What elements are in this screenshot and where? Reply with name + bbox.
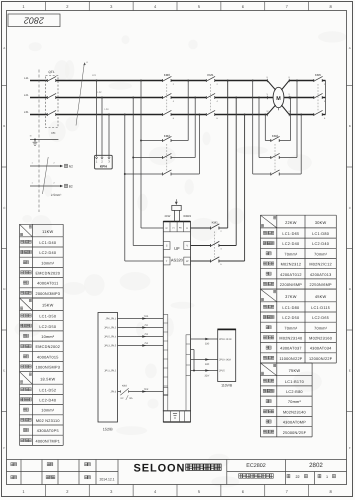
svg-text:LC1-D65: LC1-D65 bbox=[282, 232, 299, 236]
svg-text:22KW: 22KW bbox=[285, 220, 297, 225]
svg-text:LC2-B80: LC2-B80 bbox=[286, 390, 303, 394]
svg-text:L21: L21 bbox=[24, 93, 29, 97]
svg-text:4300AT0P5: 4300AT0P5 bbox=[37, 429, 59, 433]
svg-text:3DY: 3DY bbox=[204, 374, 209, 377]
svg-text:1: 1 bbox=[326, 475, 328, 479]
svg-text:LC2-D40: LC2-D40 bbox=[39, 251, 56, 255]
svg-text:LC1-B170: LC1-B170 bbox=[285, 380, 304, 384]
svg-text:4200AT012: 4200AT012 bbox=[280, 273, 302, 277]
svg-text:4200AT013: 4200AT013 bbox=[310, 273, 332, 277]
svg-text:M02N23140: M02N23140 bbox=[279, 337, 302, 341]
svg-text:A: A bbox=[349, 46, 351, 50]
svg-text:F: F bbox=[3, 446, 5, 450]
svg-text:EMCDN2002: EMCDN2002 bbox=[35, 345, 60, 349]
svg-text:JPL6: JPL6 bbox=[110, 391, 116, 394]
svg-text:2000N/3MP3: 2000N/3MP3 bbox=[35, 292, 60, 296]
svg-text:2.5mm²: 2.5mm² bbox=[51, 193, 62, 197]
svg-text:70mm²: 70mm² bbox=[314, 252, 328, 256]
svg-text:2014.12.1: 2014.12.1 bbox=[99, 477, 114, 481]
svg-text:(+): (+) bbox=[172, 227, 175, 230]
svg-text:L01: L01 bbox=[92, 74, 97, 77]
svg-text:18.5KW: 18.5KW bbox=[40, 376, 55, 381]
svg-text:JP10.JPL2: JP10.JPL2 bbox=[104, 327, 117, 330]
svg-text:75KW: 75KW bbox=[289, 368, 301, 373]
svg-text:WDR2: WDR2 bbox=[183, 215, 191, 218]
svg-text:E: E bbox=[3, 369, 5, 373]
svg-text:45KW: 45KW bbox=[315, 294, 327, 299]
svg-text:LC1-D115: LC1-D115 bbox=[311, 306, 330, 310]
svg-text:L11: L11 bbox=[24, 76, 29, 80]
svg-text:AS320: AS320 bbox=[171, 258, 184, 263]
svg-text:JP15.JPL4: JP15.JPL4 bbox=[104, 336, 117, 339]
svg-text:N2: N2 bbox=[69, 164, 73, 168]
svg-text:M02N2/C12: M02N2/C12 bbox=[309, 263, 332, 267]
svg-text:M02 N23110: M02 N23110 bbox=[36, 419, 60, 423]
svg-text:1000N/5MP3: 1000N/5MP3 bbox=[35, 366, 60, 370]
svg-text:12000N/22F: 12000N/22F bbox=[309, 357, 333, 361]
svg-text:LC1-D40: LC1-D40 bbox=[39, 241, 56, 245]
svg-text:7H1: 7H1 bbox=[144, 315, 149, 318]
svg-text:PE: PE bbox=[51, 131, 55, 135]
svg-text:15KW: 15KW bbox=[42, 303, 54, 308]
svg-text:152/B: 152/B bbox=[103, 427, 113, 431]
svg-text:10mm²: 10mm² bbox=[41, 409, 55, 413]
svg-text:22: 22 bbox=[295, 475, 299, 479]
svg-text:LC2-D40: LC2-D40 bbox=[39, 399, 56, 403]
svg-text:LC1-D80: LC1-D80 bbox=[282, 306, 299, 310]
svg-text:KM1: KM1 bbox=[207, 73, 214, 77]
svg-text:EMCDN2020: EMCDN2020 bbox=[35, 272, 60, 276]
svg-text:JP13.JPL5: JP13.JPL5 bbox=[104, 345, 117, 348]
svg-text:BA: BA bbox=[129, 397, 133, 400]
svg-text:10mm²: 10mm² bbox=[41, 335, 55, 339]
svg-text:25000N/25F: 25000N/25F bbox=[283, 431, 307, 435]
svg-text:JP18-1K18: JP18-1K18 bbox=[219, 338, 232, 341]
svg-text:2KW: 2KW bbox=[164, 215, 170, 218]
svg-text:KM1: KM1 bbox=[212, 221, 219, 225]
svg-text:4300AT034: 4300AT034 bbox=[310, 347, 332, 351]
svg-text:JP6.JPL1: JP6.JPL1 bbox=[105, 318, 116, 321]
svg-text:QF1: QF1 bbox=[48, 70, 54, 74]
svg-text:JP11.JPL2: JP11.JPL2 bbox=[104, 369, 117, 372]
svg-text:2250N/6MP: 2250N/6MP bbox=[309, 283, 332, 287]
svg-text:V: V bbox=[186, 245, 188, 248]
svg-text:LC2-D65: LC2-D65 bbox=[312, 316, 329, 320]
svg-text:2200N/6MP: 2200N/6MP bbox=[280, 283, 303, 287]
svg-text:B: B bbox=[349, 124, 351, 128]
svg-text:4000AT011: 4000AT011 bbox=[37, 282, 58, 286]
svg-text:L03: L03 bbox=[105, 108, 110, 111]
svg-text:11000N/22F: 11000N/22F bbox=[279, 357, 303, 361]
svg-text:LC1-D52: LC1-D52 bbox=[39, 388, 56, 392]
svg-text:KM0: KM0 bbox=[164, 73, 171, 77]
svg-text:70mm²: 70mm² bbox=[284, 252, 298, 256]
svg-text:M02N23160: M02N23160 bbox=[309, 337, 332, 341]
svg-text:E: E bbox=[349, 369, 351, 373]
svg-text:10mm²: 10mm² bbox=[41, 261, 55, 265]
svg-text:B2: B2 bbox=[69, 184, 73, 188]
svg-text:S: S bbox=[166, 245, 168, 248]
svg-text:JP15: JP15 bbox=[219, 370, 225, 373]
svg-text:SELOON: SELOON bbox=[134, 463, 186, 475]
svg-text:KM5: KM5 bbox=[315, 73, 322, 77]
svg-text:11KW: 11KW bbox=[42, 229, 53, 234]
svg-text:7K2: 7K2 bbox=[144, 388, 149, 391]
svg-text:U: U bbox=[186, 227, 188, 230]
svg-text:70mm²: 70mm² bbox=[288, 400, 302, 404]
svg-text:7I4: 7I4 bbox=[144, 342, 148, 345]
svg-text:L02: L02 bbox=[98, 91, 103, 94]
svg-text:M02N23140: M02N23140 bbox=[283, 410, 306, 414]
svg-text:F: F bbox=[349, 446, 351, 450]
svg-text:4300AT0MP: 4300AT0MP bbox=[283, 421, 306, 425]
svg-text:30KW: 30KW bbox=[315, 220, 327, 225]
svg-text:JP19-1KM: JP19-1KM bbox=[219, 359, 231, 362]
svg-text:L31: L31 bbox=[24, 110, 29, 114]
svg-text:7I2: 7I2 bbox=[144, 324, 148, 327]
svg-text:LC2-D50: LC2-D50 bbox=[282, 316, 299, 320]
svg-text:LC1-D80: LC1-D80 bbox=[312, 232, 329, 236]
svg-text:A: A bbox=[3, 46, 5, 50]
svg-text:37KW: 37KW bbox=[285, 294, 297, 299]
svg-text:KM2: KM2 bbox=[164, 134, 171, 138]
svg-text:2802: 2802 bbox=[309, 462, 323, 469]
svg-text:B: B bbox=[3, 124, 5, 128]
svg-text:KPH: KPH bbox=[100, 165, 108, 169]
svg-text:4000N/7MP1: 4000N/7MP1 bbox=[35, 439, 60, 443]
svg-text:4000AT015: 4000AT015 bbox=[37, 355, 59, 359]
svg-text:70mm²: 70mm² bbox=[314, 326, 328, 330]
svg-text:LC2-D40: LC2-D40 bbox=[312, 242, 329, 246]
svg-text:M02N2312: M02N2312 bbox=[281, 263, 302, 267]
svg-text:330: 330 bbox=[205, 363, 210, 366]
svg-text:LC2-D40: LC2-D40 bbox=[282, 242, 299, 246]
svg-text:EC2802: EC2802 bbox=[246, 463, 265, 469]
svg-text:4300AT037: 4300AT037 bbox=[280, 347, 302, 351]
svg-text:LC1-D50: LC1-D50 bbox=[39, 315, 56, 319]
svg-text:KBO: KBO bbox=[122, 385, 127, 388]
svg-text:M: M bbox=[276, 96, 281, 102]
svg-text:7I3: 7I3 bbox=[144, 333, 148, 336]
svg-text:KM2: KM2 bbox=[272, 134, 279, 138]
svg-text:LC2-D50: LC2-D50 bbox=[39, 325, 56, 329]
svg-text:UF: UF bbox=[174, 246, 180, 251]
svg-text:2802: 2802 bbox=[24, 15, 45, 25]
svg-text:70mm²: 70mm² bbox=[284, 326, 298, 330]
svg-text:330: 330 bbox=[205, 343, 210, 346]
svg-text:110V/B: 110V/B bbox=[221, 384, 233, 388]
svg-text:R: R bbox=[166, 227, 168, 230]
